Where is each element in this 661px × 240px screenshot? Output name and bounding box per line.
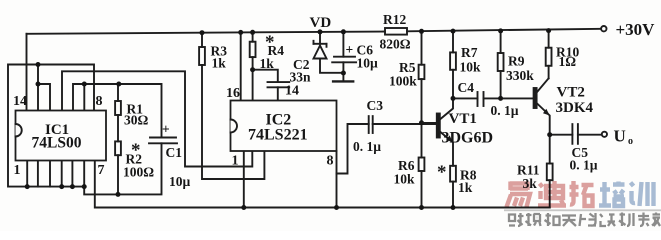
svg-text:820Ω: 820Ω (380, 37, 411, 52)
junction R5 rail (419, 29, 424, 34)
svg-text:0. 1µ: 0. 1µ (491, 103, 519, 118)
svg-text:*: * (437, 162, 447, 183)
wire IC2 pin1 to line C (243, 151, 245, 208)
svg-text:100Ω: 100Ω (123, 165, 154, 180)
junction pin16 rail (238, 30, 243, 35)
svg-text:16: 16 (226, 86, 240, 101)
svg-text:0. 1µ: 0. 1µ (353, 139, 381, 154)
junction pin1 bus (25, 184, 30, 189)
wire IC1 pin11 long line y=71.3 to IC2 pins 1/2 (62, 71, 252, 166)
resistor R2 (115, 141, 121, 155)
resistor R3 and lead to IC2 pin3 (201, 33, 203, 47)
char he (545, 213, 560, 226)
svg-text:33n: 33n (290, 70, 312, 85)
char pin (526, 213, 541, 226)
wire IC1 pin14 drop from rail (26, 34, 28, 111)
junction VD-C6 (341, 71, 346, 76)
junction pins12-13 (36, 82, 41, 87)
resistor R9 (500, 31, 502, 53)
svg-text:1k: 1k (212, 56, 227, 71)
svg-text:330k: 330k (506, 68, 534, 83)
capacitor C1 electrolytic (150, 137, 176, 139)
svg-text:14: 14 (285, 84, 299, 99)
junction R9-C4 (498, 96, 503, 101)
capacitor C4 (453, 97, 478, 99)
char she (509, 213, 524, 226)
watermark divider (504, 209, 661, 211)
watermark small row (509, 213, 660, 227)
junction IC2 pin1 common (241, 205, 246, 210)
svg-text:R7: R7 (461, 45, 478, 60)
svg-text:1k: 1k (260, 56, 275, 71)
watermark (504, 181, 661, 226)
svg-text:7: 7 (98, 163, 105, 178)
resistor R12 in rail (385, 28, 407, 35)
svg-text:14: 14 (13, 94, 27, 109)
svg-text:3DG6D: 3DG6D (442, 130, 494, 147)
diode VD zener (319, 32, 321, 44)
junction VT1 base node (419, 120, 424, 125)
junction R9 rail (498, 28, 503, 33)
junction pin6 bus (82, 184, 87, 189)
junction R7-C4-collector (451, 96, 456, 101)
svg-text:8: 8 (327, 154, 334, 169)
watermark char tuo (570, 181, 594, 206)
node +30V terminal (601, 26, 606, 31)
op-amp IC1 box (16, 111, 107, 161)
transistor VT1 (437, 114, 440, 138)
svg-text:+: + (346, 42, 354, 57)
svg-text:1k: 1k (458, 180, 473, 195)
wire bus A drop to line B (84, 143, 161, 194)
junction pin13 net (36, 62, 41, 67)
resistor R6 (419, 158, 425, 172)
junction R4-C2-pin15 (250, 67, 255, 72)
wire IC1 bottom pins to bus A (26, 161, 28, 187)
wire VT1 base (422, 122, 437, 124)
wire hook pins13/12: vertical at x38 and corner to x50 (37, 65, 39, 111)
junction C6 rail (341, 29, 346, 34)
svg-text:0. 1µ: 0. 1µ (570, 158, 598, 173)
svg-text:74LS00: 74LS00 (32, 135, 82, 152)
svg-text:+30V: +30V (616, 20, 656, 39)
svg-text:C1: C1 (166, 145, 183, 160)
svg-text:1: 1 (14, 163, 21, 178)
wire pins 10/9 to R1/C1 top line y=84 (73, 84, 162, 138)
junction IC2 pin8 common (334, 205, 339, 210)
junction R3 rail (200, 30, 205, 35)
svg-text:1: 1 (232, 154, 239, 169)
junction pin5 bus (70, 184, 75, 189)
capacitor C2 and IC2 pin14 (253, 70, 278, 82)
junction R6 common (419, 205, 424, 210)
wire IC2 pin8 to line C (336, 151, 338, 208)
char tian (562, 216, 576, 227)
op-amp IC2 box (231, 101, 337, 152)
svg-text:C4: C4 (458, 80, 475, 95)
resistor R11 (549, 135, 551, 164)
junction R10 rail (546, 28, 551, 33)
resistor R8 (450, 166, 456, 182)
svg-text:10µ: 10µ (357, 56, 379, 71)
junction VT2 emitter node (547, 132, 552, 137)
svg-text:10k: 10k (460, 60, 482, 75)
junction R4 rail (250, 30, 255, 35)
svg-text:100k: 100k (389, 74, 417, 89)
node Uo terminal (602, 132, 607, 137)
watermark char di (538, 181, 566, 206)
svg-text:30Ω: 30Ω (124, 113, 149, 128)
junction R8 common (451, 205, 456, 210)
svg-text:1Ω: 1Ω (559, 54, 577, 69)
svg-text:R12: R12 (383, 12, 406, 27)
svg-text:VT1: VT1 (449, 111, 477, 127)
svg-text:10µ: 10µ (169, 174, 191, 189)
svg-text:74LS221: 74LS221 (248, 127, 308, 144)
char jia (652, 213, 660, 227)
wire IC1 pin8 net: y=64.5 line with left box edge down to bottom bus (8, 65, 94, 187)
resistor R5 (421, 31, 423, 64)
watermark char xun (631, 182, 654, 206)
svg-text:VT2: VT2 (557, 85, 585, 101)
wire IC2 pin16 drop (240, 32, 242, 100)
junction R7 rail (451, 29, 456, 34)
junction VD rail (318, 29, 323, 34)
svg-text:o: o (628, 136, 633, 147)
char xian (580, 213, 597, 226)
transistor VT2 (534, 88, 537, 108)
svg-text:10k: 10k (394, 172, 416, 187)
watermark char pei (599, 182, 625, 207)
junction pin9 top (82, 82, 87, 87)
resistor R1 (117, 84, 119, 101)
junction R2 bottom (116, 192, 121, 197)
capacitor C5 (550, 134, 573, 136)
svg-text:U: U (614, 127, 626, 146)
watermark char yi (507, 182, 531, 208)
ground (333, 80, 353, 82)
svg-text:3DK4: 3DK4 (556, 100, 594, 116)
svg-text:VD: VD (310, 15, 332, 31)
wire IC1 pin7 down to common line C (95, 161, 550, 208)
wire top supply rail (27, 32, 386, 34)
resistor R4 (252, 32, 254, 41)
capacitor C6 electrolytic (342, 32, 344, 57)
resistor R10 (548, 31, 550, 48)
junction pin4 bus (59, 184, 64, 189)
junction R1 top (116, 82, 121, 87)
svg-text:+: + (162, 122, 170, 137)
svg-text:R9: R9 (508, 54, 525, 69)
capacitor C3 (337, 124, 369, 174)
char ji (619, 213, 634, 227)
resistor R7 (452, 31, 454, 52)
char she2 (600, 214, 615, 226)
svg-text:8: 8 (96, 94, 103, 109)
svg-text:C3: C3 (367, 98, 384, 113)
char zhuan (638, 213, 650, 227)
